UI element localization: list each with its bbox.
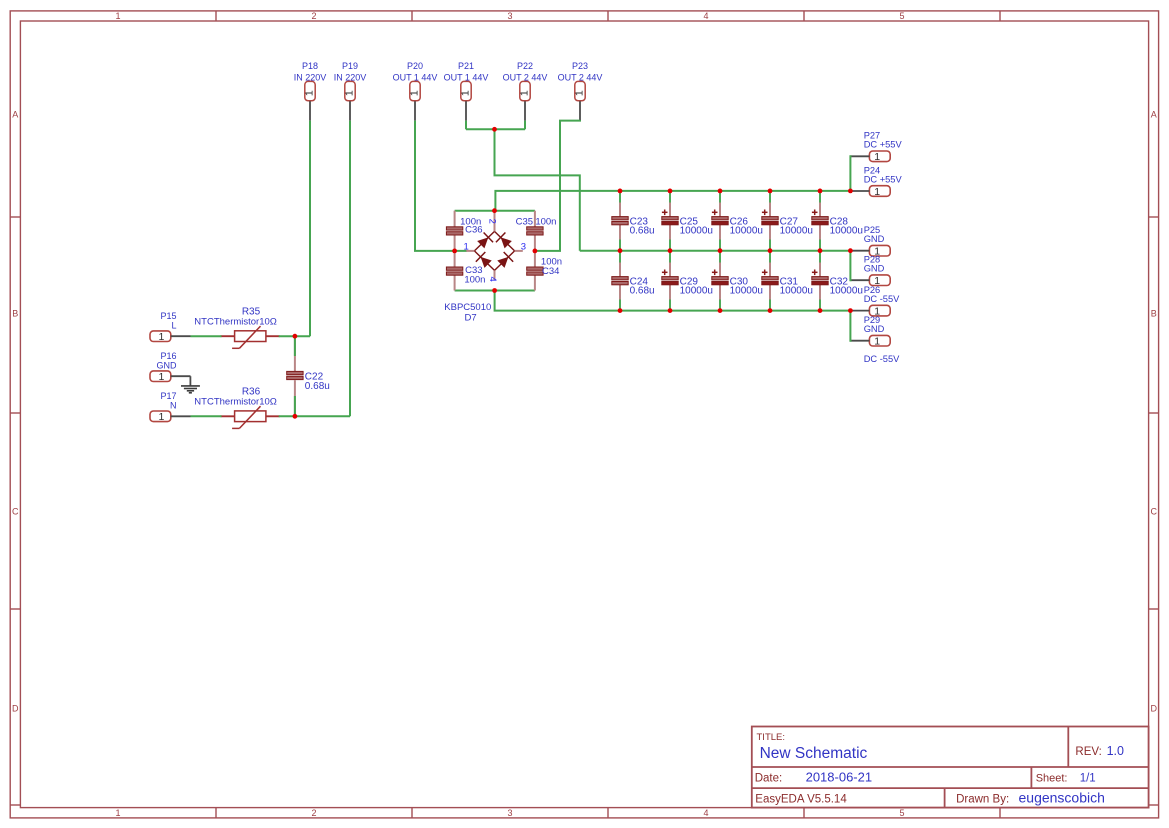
junction	[452, 249, 457, 254]
svg-text:1: 1	[158, 371, 164, 383]
svg-text:C: C	[12, 507, 19, 517]
capacitor C23	[612, 191, 655, 251]
pin P16	[150, 351, 191, 383]
svg-text:P20: P20	[407, 61, 423, 71]
svg-text:C34: C34	[542, 266, 559, 277]
svg-text:1/1: 1/1	[1080, 773, 1096, 785]
pin P15	[150, 311, 191, 343]
svg-text:DC +55V: DC +55V	[864, 174, 903, 184]
junction	[492, 127, 497, 132]
svg-text:C: C	[1151, 507, 1158, 517]
junction	[768, 189, 773, 194]
wire P21-P22 join	[466, 128, 525, 130]
svg-text:1: 1	[460, 90, 472, 96]
svg-text:10000u: 10000u	[830, 286, 863, 297]
junction	[668, 189, 673, 194]
wire GND rail	[580, 250, 851, 252]
svg-text:2: 2	[311, 808, 316, 818]
wire C22 top	[294, 336, 296, 356]
svg-text:1: 1	[409, 90, 421, 96]
svg-text:GND: GND	[157, 361, 178, 371]
junction	[818, 189, 823, 194]
svg-text:5: 5	[899, 808, 904, 818]
svg-text:4: 4	[703, 11, 708, 21]
svg-text:P22: P22	[517, 61, 533, 71]
pin P27	[850, 131, 902, 164]
svg-text:0.68u: 0.68u	[630, 226, 655, 237]
svg-text:10000u: 10000u	[730, 226, 763, 237]
capacitor C26	[712, 191, 763, 251]
svg-text:C35: C35	[516, 216, 533, 227]
svg-text:TITLE:: TITLE:	[757, 732, 786, 743]
capacitor C33	[446, 251, 462, 291]
capacitor C35	[527, 211, 543, 251]
svg-text:DC -55V: DC -55V	[864, 294, 900, 304]
wire bridge bottom connector	[455, 290, 535, 292]
svg-text:100n: 100n	[464, 274, 485, 285]
capacitor C29	[662, 251, 713, 311]
junction	[492, 208, 497, 213]
pin P18	[294, 61, 327, 121]
svg-text:D7: D7	[465, 312, 477, 323]
wire P18 to node R35/C22	[309, 121, 311, 337]
svg-text:1: 1	[874, 186, 880, 198]
ground	[181, 376, 200, 393]
junction	[668, 248, 673, 253]
wire P20 to bridge pin1	[415, 121, 467, 251]
svg-text:10000u: 10000u	[830, 226, 863, 237]
svg-text:1: 1	[304, 90, 316, 96]
svg-text:1: 1	[115, 11, 120, 21]
wire C22 bottom	[294, 396, 296, 416]
svg-text:DC +55V: DC +55V	[864, 140, 903, 150]
svg-text:N: N	[170, 401, 177, 411]
pin P24	[850, 165, 902, 198]
wire +55V rail	[495, 191, 850, 211]
pin P29	[850, 315, 890, 348]
junction	[848, 308, 853, 313]
svg-text:1: 1	[519, 90, 531, 96]
wire -55V rail	[495, 291, 851, 311]
svg-text:A: A	[1151, 110, 1157, 120]
svg-text:Drawn By:: Drawn By:	[956, 794, 1009, 806]
wire center tap to GND rail	[495, 129, 580, 250]
svg-text:2018-06-21: 2018-06-21	[806, 770, 873, 785]
svg-text:C36: C36	[465, 225, 482, 236]
junction	[293, 334, 298, 339]
svg-text:3: 3	[507, 808, 512, 818]
capacitor C28	[812, 191, 863, 251]
capacitor C27	[762, 191, 813, 251]
svg-text:A: A	[12, 110, 18, 120]
junction	[768, 308, 773, 313]
bridge rectifier D7 KBPC5010	[444, 211, 526, 323]
svg-text:L: L	[171, 321, 176, 331]
wire P19 to node R36/C22	[349, 121, 351, 417]
svg-text:REV:: REV:	[1075, 746, 1101, 758]
capacitor C32	[812, 251, 863, 311]
svg-text:2: 2	[311, 11, 316, 21]
wire to P27	[850, 156, 851, 191]
junction	[618, 308, 623, 313]
svg-text:10000u: 10000u	[730, 286, 763, 297]
capacitor C25	[662, 191, 713, 251]
capacitor C36	[446, 211, 462, 251]
wire P15 to R35	[191, 335, 222, 337]
svg-text:GND: GND	[864, 324, 885, 334]
svg-text:P17: P17	[160, 391, 176, 401]
svg-text:D: D	[12, 704, 19, 714]
svg-text:100n: 100n	[535, 216, 556, 227]
capacitor C34	[527, 251, 543, 291]
junction	[718, 189, 723, 194]
pin P23	[558, 61, 603, 121]
svg-text:P15: P15	[160, 311, 176, 321]
svg-text:Sheet:: Sheet:	[1036, 773, 1068, 785]
svg-text:P18: P18	[302, 61, 318, 71]
capacitor C31	[762, 251, 813, 311]
svg-text:eugenscobich: eugenscobich	[1019, 790, 1105, 806]
svg-text:10000u: 10000u	[680, 286, 713, 297]
svg-text:P21: P21	[458, 61, 474, 71]
junction	[668, 308, 673, 313]
capacitor C30	[712, 251, 763, 311]
junction	[492, 288, 497, 293]
wire R36 to node and P19	[279, 415, 350, 417]
pin P26	[850, 285, 900, 318]
junction	[293, 414, 298, 419]
resistor R36 (NTC thermistor)	[194, 387, 279, 429]
capacitor C24	[612, 251, 655, 311]
pin P28	[850, 255, 890, 288]
svg-text:NTCThermistor10Ω: NTCThermistor10Ω	[194, 317, 277, 328]
junction	[818, 248, 823, 253]
svg-text:3: 3	[507, 11, 512, 21]
svg-text:DC -55V: DC -55V	[864, 354, 900, 364]
junction	[718, 248, 723, 253]
svg-text:3: 3	[521, 242, 526, 253]
svg-text:1: 1	[574, 90, 586, 96]
svg-text:2: 2	[487, 219, 498, 224]
svg-text:4: 4	[703, 808, 708, 818]
wire R35 to node	[279, 335, 310, 337]
wire P23 to bridge pin3	[536, 120, 580, 251]
svg-text:1: 1	[115, 808, 120, 818]
svg-text:1: 1	[158, 411, 164, 423]
svg-text:1: 1	[874, 151, 880, 163]
junction	[718, 308, 723, 313]
junction	[618, 248, 623, 253]
pin P21	[444, 61, 489, 121]
svg-text:D: D	[1151, 704, 1158, 714]
svg-text:Date:: Date:	[755, 773, 783, 785]
pin P20	[393, 61, 438, 121]
svg-text:5: 5	[899, 11, 904, 21]
svg-text:1: 1	[344, 90, 356, 96]
svg-text:4: 4	[487, 277, 498, 282]
svg-text:1: 1	[874, 336, 880, 348]
svg-text:1: 1	[464, 242, 469, 253]
pin P17	[150, 391, 191, 423]
svg-text:B: B	[1151, 309, 1157, 319]
svg-text:B: B	[12, 309, 18, 319]
junction	[533, 249, 538, 254]
svg-text:New Schematic: New Schematic	[760, 745, 868, 762]
wire P17 to R36	[191, 415, 222, 417]
svg-text:0.68u: 0.68u	[630, 286, 655, 297]
svg-text:0.68u: 0.68u	[305, 381, 330, 392]
pin P25	[850, 225, 890, 258]
svg-text:1: 1	[158, 331, 164, 343]
junction	[618, 189, 623, 194]
wire P21 down	[465, 121, 467, 130]
junction	[768, 248, 773, 253]
svg-text:P23: P23	[572, 61, 588, 71]
svg-text:10000u: 10000u	[680, 226, 713, 237]
junction	[848, 248, 853, 253]
junction	[848, 189, 853, 194]
svg-text:P19: P19	[342, 61, 358, 71]
wire to P28	[850, 251, 851, 281]
wire bridge top connector	[455, 210, 535, 212]
capacitor C22	[287, 336, 330, 416]
svg-text:EasyEDA V5.5.14: EasyEDA V5.5.14	[755, 794, 847, 806]
svg-text:GND: GND	[864, 264, 885, 274]
svg-text:GND: GND	[864, 234, 885, 244]
wire to P29	[850, 311, 851, 341]
pin P19	[334, 61, 367, 121]
svg-text:10000u: 10000u	[780, 226, 813, 237]
svg-text:P16: P16	[160, 351, 176, 361]
pin P22	[503, 61, 548, 121]
junction	[818, 308, 823, 313]
svg-text:1.0: 1.0	[1107, 744, 1124, 758]
wire P22 down	[524, 121, 526, 130]
svg-text:10000u: 10000u	[780, 286, 813, 297]
svg-text:NTCThermistor10Ω: NTCThermistor10Ω	[194, 397, 277, 408]
resistor R35 (NTC thermistor)	[194, 306, 279, 348]
